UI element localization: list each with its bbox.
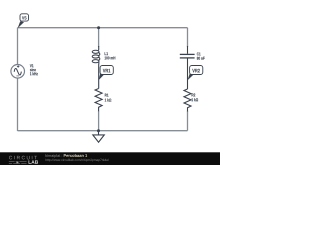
wire right vertical lower <box>187 111 189 131</box>
resistor R2 <box>184 89 191 112</box>
wire bottom horizontal <box>18 130 188 132</box>
resistor R1 <box>95 89 102 112</box>
wire C1 to R2 <box>187 59 189 90</box>
footer annotation line 2 <box>46 159 109 162</box>
voltage source V1 <box>11 65 25 79</box>
footer annotation line 1 <box>46 154 63 158</box>
label VS <box>18 14 29 28</box>
label VR2 <box>188 66 203 81</box>
C1 value label <box>197 52 201 55</box>
label VR1 <box>99 66 114 81</box>
inductor L1 <box>92 46 100 89</box>
L1 value label <box>105 52 108 55</box>
node junction dot top <box>97 26 100 29</box>
wire right vertical upper <box>187 28 189 47</box>
R2 value label <box>192 93 196 96</box>
wire middle vertical upper <box>98 28 100 47</box>
capacitor C1 <box>180 46 195 58</box>
node junction dot bottom <box>97 129 100 132</box>
V1 value label <box>30 64 34 67</box>
footer bar <box>0 152 220 165</box>
footer CircuitLab logo <box>9 156 38 164</box>
wire left vertical <box>17 28 19 131</box>
ground <box>93 131 105 143</box>
wire middle vertical lower <box>98 111 100 131</box>
R1 value label <box>105 94 109 97</box>
wire top horizontal <box>18 27 188 29</box>
